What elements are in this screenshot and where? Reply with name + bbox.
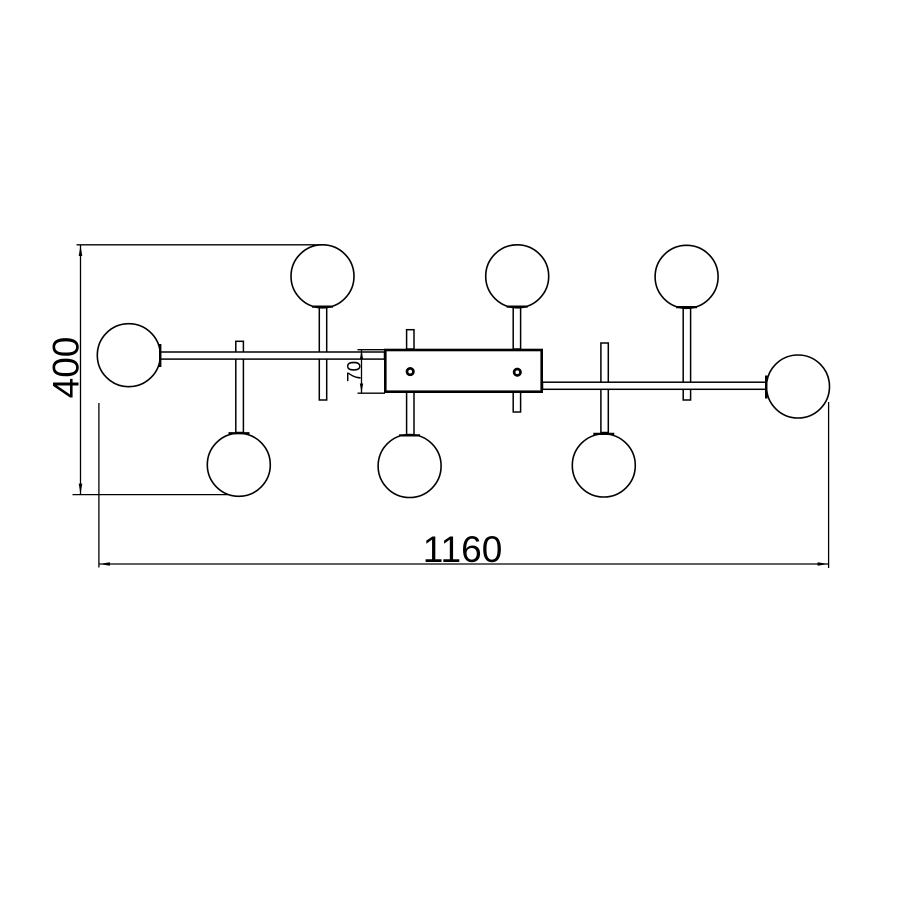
globe L left — [97, 324, 160, 387]
globe C top-right — [655, 245, 718, 308]
fitter cap of globe D — [229, 432, 250, 434]
stem of bottom-middle globe — [407, 392, 414, 435]
dim 400 vertical dimension line — [80, 245, 82, 495]
globe D bottom-left — [207, 433, 270, 496]
stem S1 of top-left globe — [319, 307, 326, 400]
dim 70 extension line bottom — [358, 392, 386, 394]
dim 70 arrow down — [360, 384, 363, 394]
dim 1160 arrow left — [99, 562, 110, 566]
stem S2 of top-middle globe — [513, 307, 520, 349]
collar of globe R — [765, 376, 767, 399]
globe R right — [767, 355, 830, 418]
stem S3 of bottom-right globe — [601, 343, 608, 433]
dim 1160 extension line right — [828, 402, 830, 568]
stem S4 of top-right globe — [683, 307, 690, 400]
stem S5 of bottom-left globe — [236, 341, 244, 432]
svg-text:70: 70 — [345, 361, 366, 382]
fitter cap of globe E — [399, 434, 420, 436]
dim 1160 extension line left — [98, 403, 100, 568]
dim 400 extension line bottom — [73, 494, 230, 496]
svg-text:400: 400 — [46, 337, 87, 399]
fitter cap of globe F — [593, 433, 614, 435]
canopy mounting box — [385, 350, 541, 392]
dim 70 vertical dimension line — [361, 350, 363, 394]
left arm bar — [161, 352, 385, 359]
svg-text:1160: 1160 — [423, 529, 503, 570]
dim 70 extension line top — [358, 349, 386, 351]
stub above box of bottom-middle stem — [407, 330, 414, 349]
fitter cap of globe B — [507, 306, 528, 308]
dim 1160 horizontal dimension line — [99, 563, 829, 565]
collar of globe L — [159, 344, 161, 367]
fitter cap of globe C — [676, 306, 697, 308]
stub below box of top-middle stem — [513, 392, 520, 412]
dim 400 arrow down — [79, 484, 83, 495]
globe B top-middle — [486, 245, 549, 308]
screw left — [407, 368, 413, 374]
globe A top-left — [291, 245, 354, 308]
globe F bottom-right — [572, 434, 635, 497]
dim 70 arrow up — [360, 350, 363, 360]
dim 400 arrow up — [79, 245, 83, 256]
globe E bottom-middle — [378, 435, 441, 498]
dim 400 extension line top — [77, 244, 324, 246]
fitter cap of globe A — [312, 306, 333, 308]
right arm bar — [543, 382, 767, 389]
screw right — [514, 369, 520, 375]
dim 1160 arrow right — [818, 562, 829, 566]
